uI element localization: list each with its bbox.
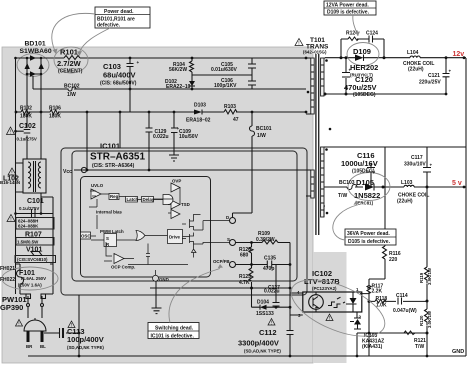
svg-text:OCP/FB: OCP/FB — [213, 259, 230, 264]
svg-text:GND: GND — [452, 349, 464, 355]
svg-text:680: 680 — [240, 253, 249, 259]
svg-text:BC101: BC101 — [256, 126, 272, 132]
svg-text:+: + — [177, 126, 180, 131]
svg-text:ERA22–10: ERA22–10 — [166, 84, 191, 90]
svg-text:0.047u(W): 0.047u(W) — [393, 308, 417, 314]
svg-text:(CIS:SVC6810): (CIS:SVC6810) — [17, 257, 48, 262]
svg-text:LTV–817B: LTV–817B — [304, 277, 340, 286]
svg-text:GP390: GP390 — [0, 303, 23, 312]
svg-text:56K/2W: 56K/2W — [169, 67, 187, 73]
svg-text:(22uH): (22uH) — [397, 199, 413, 205]
svg-text:!: ! — [298, 41, 299, 47]
svg-text:D104: D104 — [257, 299, 269, 305]
svg-text:1.0K: 1.0K — [376, 303, 387, 309]
svg-text:BC102: BC102 — [64, 84, 80, 90]
svg-text:(CIS: 68u/500V): (CIS: 68u/500V) — [100, 81, 137, 87]
svg-text:68u/400V: 68u/400V — [103, 71, 136, 80]
svg-text:Vcc: Vcc — [63, 169, 72, 175]
svg-text:S: S — [106, 236, 109, 241]
svg-text:0.022u: 0.022u — [153, 134, 169, 140]
svg-text:C121: C121 — [428, 73, 440, 79]
svg-text:HER202: HER202 — [350, 63, 378, 72]
svg-text:+: + — [430, 163, 433, 168]
svg-text:V101: V101 — [26, 247, 42, 254]
svg-text:1N5822: 1N5822 — [354, 191, 380, 200]
svg-text:B16-145N: B16-145N — [0, 180, 20, 185]
svg-text:330u/10V: 330u/10V — [404, 162, 426, 168]
svg-text:OSC: OSC — [81, 234, 91, 239]
svg-text:D105: D105 — [356, 178, 374, 187]
svg-text:OCP Comp.: OCP Comp. — [111, 265, 135, 270]
svg-text:(SD,AD,NK TYPE): (SD,AD,NK TYPE) — [67, 345, 104, 350]
svg-text:Reg: Reg — [110, 194, 119, 199]
svg-text:BD101: BD101 — [25, 41, 46, 48]
svg-text:!: ! — [10, 217, 11, 223]
svg-text:D103: D103 — [194, 103, 206, 109]
svg-text:(22uH): (22uH) — [408, 67, 424, 73]
svg-text:R120: R120 — [419, 315, 424, 326]
svg-text:!: ! — [71, 323, 72, 329]
svg-text:!: ! — [10, 130, 11, 136]
svg-text:BC103: BC103 — [339, 180, 355, 186]
svg-text:+: + — [349, 68, 352, 73]
svg-text:C114: C114 — [396, 293, 408, 299]
svg-text:(105DEG): (105DEG) — [352, 169, 375, 175]
svg-text:!: ! — [329, 316, 330, 322]
svg-text:2.2K: 2.2K — [372, 289, 383, 295]
svg-text:Internal bias: Internal bias — [96, 210, 122, 215]
svg-text:L104: L104 — [407, 50, 419, 56]
svg-text:36VA Power dead.: 36VA Power dead. — [347, 231, 390, 237]
svg-text:0.1u/275V: 0.1u/275V — [17, 137, 37, 142]
svg-text:220: 220 — [389, 257, 398, 263]
svg-text:Drive: Drive — [169, 235, 181, 240]
svg-text:C102: C102 — [19, 123, 36, 130]
svg-text:1.5M/0.5W: 1.5M/0.5W — [17, 240, 39, 245]
svg-text:R118: R118 — [376, 296, 388, 302]
svg-text:+: + — [374, 163, 377, 168]
svg-text:Power dead.: Power dead. — [104, 9, 134, 15]
svg-text:(SD,AD,NK TYPE): (SD,AD,NK TYPE) — [244, 349, 281, 354]
svg-text:D: D — [226, 215, 229, 220]
svg-text:Latch: Latch — [127, 197, 139, 202]
svg-text:(105DEG): (105DEG) — [353, 92, 376, 98]
svg-text:100p/400V: 100p/400V — [67, 335, 104, 344]
svg-text:(CIS: STR–A6364): (CIS: STR–A6364) — [92, 163, 135, 169]
svg-text:12VA Power dead.: 12VA Power dead. — [326, 3, 369, 9]
svg-text:D109: D109 — [353, 47, 371, 56]
svg-text:IC101 is defective.: IC101 is defective. — [151, 333, 195, 339]
svg-text:FH021: FH021 — [0, 266, 15, 272]
svg-text:0.1u/275V: 0.1u/275V — [19, 206, 39, 211]
svg-text:ERA18–02: ERA18–02 — [186, 118, 211, 124]
svg-text:470u/25V: 470u/25V — [344, 83, 377, 92]
svg-text:+: + — [449, 69, 452, 74]
svg-text:10u/50V: 10u/50V — [179, 134, 199, 140]
svg-text:5 v: 5 v — [452, 180, 462, 187]
svg-text:!: ! — [271, 321, 272, 327]
svg-text:(ERC81): (ERC81) — [356, 201, 374, 206]
svg-text:PWM Latch: PWM Latch — [100, 229, 124, 234]
svg-text:BR: BR — [26, 344, 33, 349]
svg-text:R102: R102 — [20, 106, 32, 112]
svg-text:D109 is defective.: D109 is defective. — [327, 10, 370, 16]
svg-text:R106: R106 — [49, 106, 61, 112]
svg-text:T/W: T/W — [338, 193, 347, 199]
svg-text:STR–A6351: STR–A6351 — [90, 152, 145, 163]
svg-text:FH022: FH022 — [0, 277, 15, 283]
svg-text:C124: C124 — [366, 31, 378, 37]
svg-text:0.022u: 0.022u — [264, 289, 280, 295]
svg-text:C117: C117 — [411, 155, 423, 161]
svg-text:UVLO: UVLO — [91, 183, 104, 188]
svg-text:(KIA431): (KIA431) — [362, 344, 383, 350]
svg-text:0.39/2W: 0.39/2W — [256, 237, 275, 243]
svg-text:220u/25V: 220u/25V — [419, 80, 441, 86]
svg-text:!: ! — [11, 171, 12, 177]
svg-text:3.0K/1W: 3.0K/1W — [427, 310, 432, 328]
svg-text:T/W: T/W — [415, 344, 424, 350]
svg-text:GND: GND — [159, 277, 169, 282]
svg-text:R101: R101 — [60, 48, 78, 57]
svg-text:C135: C135 — [264, 256, 276, 262]
svg-text:TSD: TSD — [181, 202, 190, 207]
svg-text:C112: C112 — [259, 328, 277, 337]
svg-text:C101: C101 — [27, 198, 44, 205]
svg-text:(CEMENT): (CEMENT) — [58, 69, 83, 75]
svg-text:S1WBA60: S1WBA60 — [20, 48, 52, 55]
svg-text:OVP: OVP — [172, 179, 181, 184]
svg-text:4.7K: 4.7K — [239, 280, 250, 286]
svg-text:BL: BL — [40, 344, 46, 349]
svg-text:IC101: IC101 — [100, 142, 120, 151]
svg-text:1/W: 1/W — [67, 92, 76, 98]
svg-text:100p/1KV: 100p/1KV — [214, 83, 237, 89]
svg-text:3.9K/1W: 3.9K/1W — [427, 267, 432, 285]
svg-text:47: 47 — [233, 117, 239, 123]
svg-text:+: + — [137, 60, 140, 65]
svg-text:(250V 1.6A): (250V 1.6A) — [18, 283, 42, 288]
svg-text:defective.: defective. — [97, 23, 121, 29]
svg-text:S: S — [227, 237, 230, 242]
svg-text:!: ! — [18, 322, 19, 328]
svg-text:T1.6AL 250V: T1.6AL 250V — [20, 276, 46, 281]
svg-text:470p: 470p — [263, 266, 274, 272]
svg-text:(642–015G): (642–015G) — [303, 50, 327, 55]
svg-text:L103: L103 — [401, 180, 413, 186]
svg-text:180K: 180K — [49, 114, 61, 120]
svg-text:180K: 180K — [20, 114, 32, 120]
svg-text:0.01u/630V: 0.01u/630V — [211, 67, 238, 73]
svg-text:D105 is defective.: D105 is defective. — [348, 239, 391, 245]
svg-text:2.7/2W: 2.7/2W — [57, 59, 82, 68]
svg-text:R107: R107 — [25, 232, 42, 239]
svg-text:624–088K: 624–088K — [18, 224, 39, 229]
svg-text:(PC123YA2): (PC123YA2) — [312, 286, 337, 291]
svg-text:3300p/400V: 3300p/400V — [238, 339, 279, 348]
svg-text:R103: R103 — [224, 104, 236, 110]
svg-text:Delay: Delay — [143, 197, 155, 202]
svg-text:R119: R119 — [419, 272, 424, 283]
svg-text:(RU3YKLT): (RU3YKLT) — [350, 73, 373, 78]
svg-text:1000u/16V: 1000u/16V — [341, 159, 378, 168]
svg-text:Switching dead.: Switching dead. — [155, 325, 194, 331]
svg-text:1/W: 1/W — [257, 133, 266, 139]
svg-text:12v: 12v — [453, 51, 465, 58]
svg-text:1SS133: 1SS133 — [256, 311, 274, 317]
